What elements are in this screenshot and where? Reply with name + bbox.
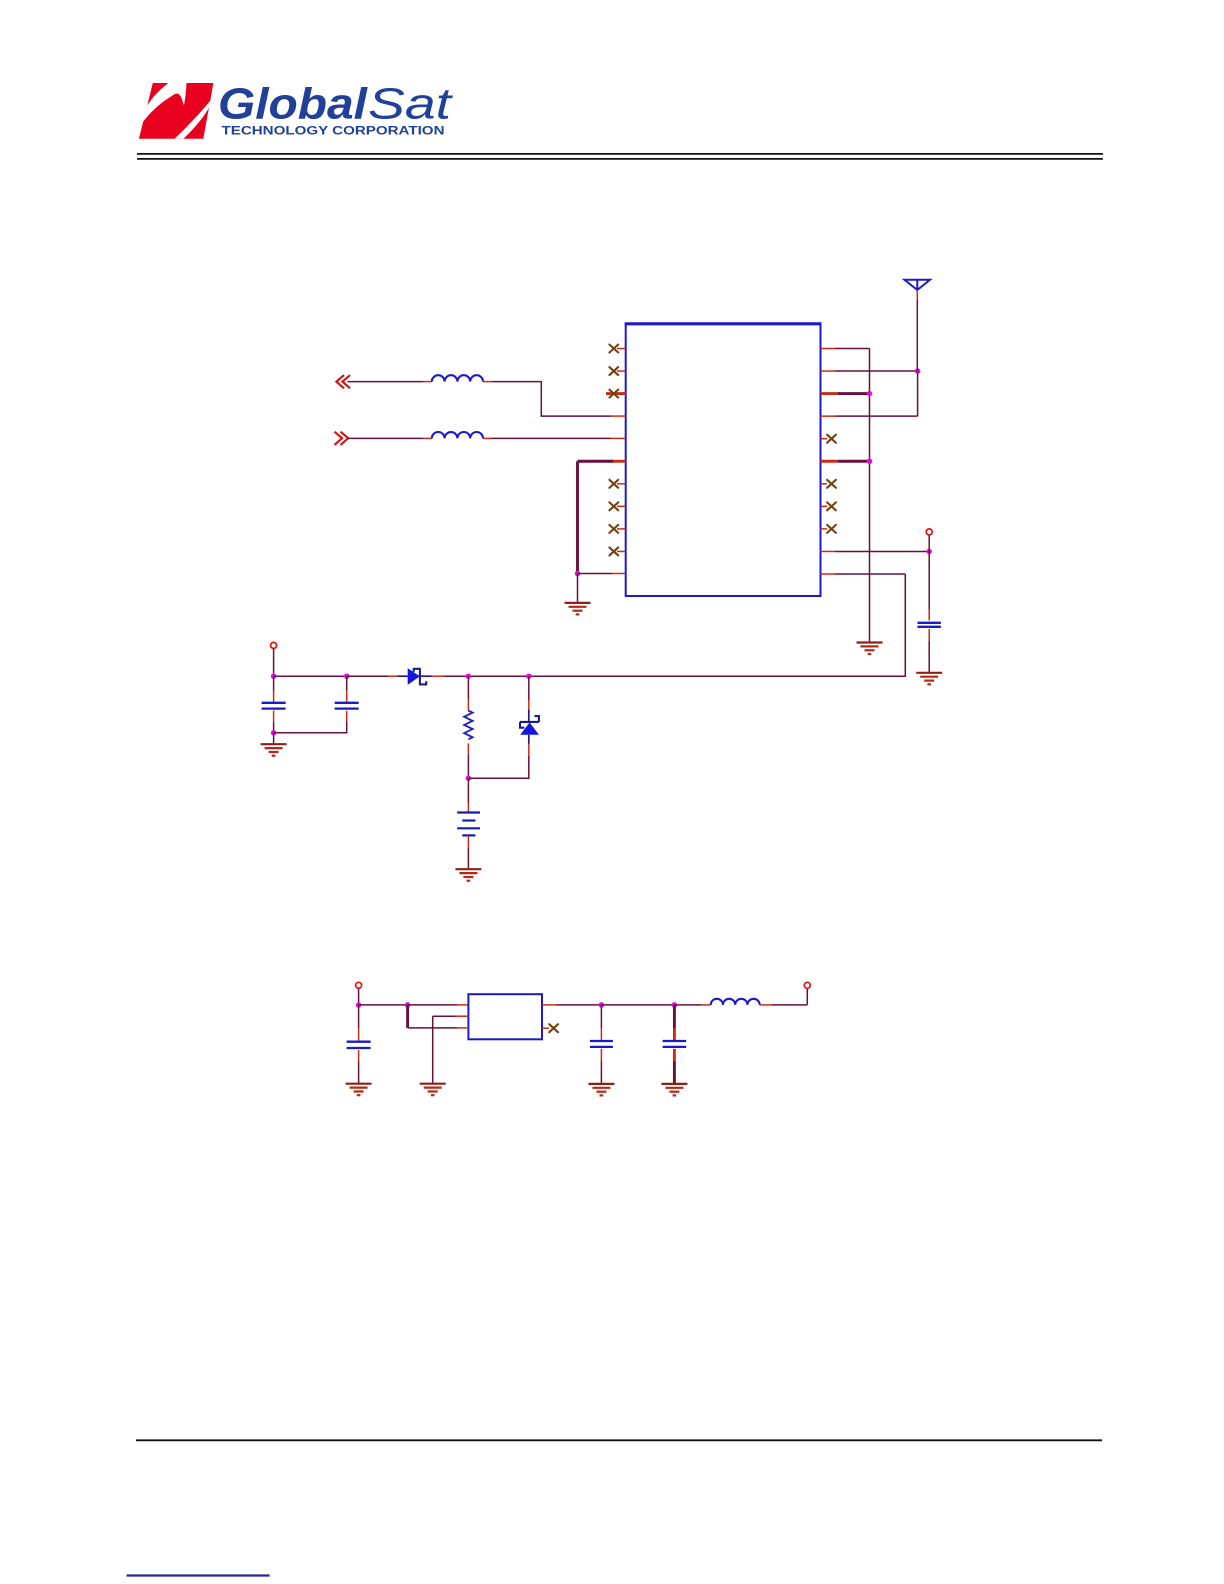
capacitor C1 [262,703,286,709]
zener diode D2 [520,710,539,744]
pin stub right row 2 [821,370,836,372]
no-connect X on U2 [549,1024,558,1032]
pin stub C5 bottom [600,1049,602,1061]
antenna ANT1 [905,280,931,290]
pin stub left row 7 [617,483,626,485]
junction R1 / D2 / BT1 [466,775,472,781]
wire antenna down [916,300,918,371]
svg-text:Global: Global [218,80,368,129]
junction antenna net [915,368,921,374]
junction rail / C1 [271,673,277,679]
pin stub right row 5 [821,438,828,440]
no-connect X [609,367,618,375]
vertical wire to ground right of U1 [869,349,871,643]
junction rail2 / C4 [356,1002,362,1008]
pin stub L1 left [423,381,431,383]
no-connect X [609,525,618,533]
diode D1 schottky [398,668,432,685]
wire up to P3 [806,988,808,1005]
pin stub U2 gnd [456,1015,469,1017]
wire row6 right (thick) [838,460,870,463]
GlobalSat logo mark (red N swoosh) [139,83,214,139]
inductor L3 [711,999,760,1005]
wire D2 top [528,676,530,700]
pin stub left row 8 [617,505,626,507]
pin stub left row 2 [617,370,626,372]
wire BT1 to ground [467,848,469,869]
no-connect X [609,502,618,510]
wire row1 right [835,348,870,350]
pin stub C1 top [273,691,275,703]
wire RF2 to L2 [348,437,424,439]
capacitor C3 [918,623,941,627]
wire C2 bottom to C1 [274,722,347,733]
wire rail segment 1 [274,675,347,677]
wire C4 top [358,1005,360,1028]
pin stub C6 top (thick) [673,1028,676,1041]
wire to ground C1 [273,733,275,744]
junction rail2 / U2 feedback [405,1002,411,1008]
junction rail / C2 [344,673,350,679]
pin stub left row 4 [611,415,626,417]
wire U2 gnd down [432,1016,434,1083]
pin stub left row 11 [612,573,626,575]
junction rail / D2 [526,673,532,679]
wire GND node to U1 row 11 [578,573,613,575]
wire U2 pin3 elbow vertical (thick) [406,1005,409,1028]
ground below C1 [261,744,287,756]
voltage regulator U2 [468,994,542,1039]
ground below right of U1 [857,643,883,655]
wire L2 to U1 pin [492,437,612,439]
pin stub C3 top [928,609,930,621]
pin stub L1 right [483,381,492,383]
pin stub right row 7 [821,483,828,485]
pin stub left row 5 [611,437,626,439]
port arrow RF in 1 (<<) [336,376,349,388]
svg-text:Sat: Sat [368,80,453,129]
pin stub D2 cathode [528,700,530,710]
wire R1 bottom [467,755,469,779]
wire rail segment 2 [347,675,388,677]
junction VCC node [926,549,932,555]
port power in P1 [271,642,277,648]
pin stub C2 bottom [346,711,348,722]
pin stub right row 9 [821,528,828,530]
pin stub R1 bottom [467,743,469,754]
wire U2 gnd pin [433,1015,456,1017]
wire R1 top [467,676,469,699]
pin stub left row 3 (thick) [606,392,626,395]
wire C2 top [346,676,348,690]
wire rail2 segment 3 [556,1004,602,1006]
wire D2 to R1 node [468,756,528,779]
wire C1 bottom [273,722,275,733]
IC U1 GPS module body [625,324,822,596]
wire row11 right [835,573,905,575]
pin stub L2 right [483,437,492,439]
wire row10 to VCC node [835,550,929,552]
pin stub U2 pin3 [457,1027,468,1029]
wire C1 top [273,676,275,690]
wire antenna net down [917,371,919,416]
ground below C4 [346,1084,372,1096]
wire row6 left (thick) [578,460,614,463]
junction rail / R1 [466,673,472,679]
pin stub L3 left [702,1004,711,1006]
pin stub U2 NC [542,1027,549,1029]
junction rail2 / C6 [672,1002,678,1008]
capacitor C6 [663,1041,687,1047]
wire L3 to P3 [772,1004,807,1006]
wire rail2 segment 5 [674,1004,701,1006]
pin stub left row 6 (thick) [612,460,626,463]
no-connect X [827,525,836,533]
wire U2 pin3 elbow horizontal [408,1027,457,1029]
port VCC [926,529,932,535]
ground below C3 [916,673,942,685]
inductor L1 [432,375,483,381]
ground left of U1 [565,603,591,615]
capacitor C2 [335,703,359,709]
no-connect X [827,502,836,510]
no-connect X [609,345,618,353]
no-connect X [609,480,618,488]
pin stub right row 11 [821,573,836,575]
pin stub D1 cathode [432,675,445,677]
pin stub D1 anode [388,675,398,677]
no-connect X [609,547,618,555]
footer short navy line [127,1574,270,1576]
footer rule [136,1439,1102,1441]
pin stub BT1 top [467,802,469,813]
junction node GND left [575,571,581,577]
wire C4 to ground [358,1062,360,1084]
header double rule [137,154,1103,159]
pin stub C2 top [346,691,348,703]
wire to ground [577,574,579,603]
junction row3 / gnd line [867,391,873,397]
wire rail2 segment 2 [408,1004,457,1006]
pin stub right row 8 [821,505,828,507]
wire row3 right (thick) [838,392,870,395]
junction row6 / gnd line [867,459,873,465]
wire rail segment 3 [445,675,906,677]
port arrow RF in 2 (>>) [335,432,348,444]
wire rail2 segment 1 [359,1004,408,1006]
pin stub right row 4 [821,415,836,417]
pin stub L3 right [760,1004,772,1006]
pin stub R1 top [467,699,469,710]
pin stub C3 bottom [928,629,930,641]
wire C3 to ground [928,641,930,673]
ground below BT1 [455,869,481,881]
pin stub U2 Vin [457,1004,468,1006]
wire C6 top (thick) [673,1005,676,1028]
junction C1 / C2 bottom [271,730,277,736]
capacitor C5 [590,1041,613,1047]
pin stub D2 anode [528,744,530,756]
inductor L2 [432,432,483,438]
wire VCC node up to port [928,535,930,552]
wire down to GND node (thick) [576,461,579,573]
no-connect X [827,480,836,488]
pin stub left row 10 [617,550,626,552]
pin stub antenna [916,290,918,300]
wire RF1 to L1 [348,381,424,383]
resistor R1 [464,711,472,740]
wire P2 down [358,988,360,1005]
wire C5 top [600,1005,602,1028]
wire L1 to U1 pin [492,382,612,417]
capacitor C4 [347,1042,371,1048]
no-connect X [827,435,836,443]
pin stub C1 bottom [273,711,275,722]
ground below U2 [420,1084,446,1096]
pin stub C6 bottom (thick) [673,1049,676,1061]
wire row4 right [835,415,918,417]
pin stub C4 bottom [358,1050,360,1062]
pin stub BT1 bottom [467,835,469,848]
wire rail2 segment 4 [601,1004,674,1006]
pin stub C4 top [358,1028,360,1042]
ground below C5 [588,1084,614,1096]
battery BT1 [457,813,480,836]
pin stub C5 top [600,1028,602,1041]
port P3 power out [804,982,810,988]
pin stub left row 1 [617,348,626,350]
pin stub right row 1 [821,348,836,350]
wire P1 down [273,648,275,676]
pin stub U2 Vout [542,1004,556,1006]
junction rail2 / C5 [599,1002,605,1008]
wire C5 to ground [600,1061,602,1084]
svg-text:TECHNOLOGY CORPORATION: TECHNOLOGY CORPORATION [222,124,445,138]
ground below C6 [661,1084,687,1096]
wire VCC node down to C3 [928,551,930,609]
wire row11 down to power rail [445,574,906,676]
pin stub right row 3 (thick) [821,392,839,395]
pin stub right row 6 (thick) [821,460,839,463]
pin stub left row 9 [617,528,626,530]
wire C6 to ground (thick) [673,1061,676,1084]
pin stub L2 left [423,437,431,439]
wire row2 to antenna net [835,370,918,372]
wire to BT1 [467,778,469,802]
pin stub right row 10 [821,550,836,552]
port P2 power in [356,982,362,988]
no-connect X [609,390,618,398]
